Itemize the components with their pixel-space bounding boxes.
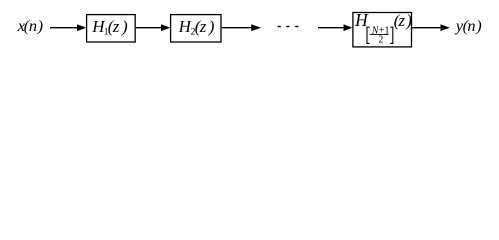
svg-text:): )	[208, 17, 215, 36]
svg-text:n: n	[467, 16, 475, 35]
block H1(z)	[87, 15, 136, 42]
svg-text:2: 2	[378, 35, 383, 46]
wire arrow ellipsis to box3	[318, 24, 352, 31]
node x(n) input label	[17, 16, 43, 35]
svg-text:z: z	[398, 11, 406, 30]
subscript numerator N+1	[371, 26, 390, 37]
ellipsis dots	[278, 26, 299, 28]
block H2(z)	[171, 15, 221, 42]
subscript denominator 2	[378, 35, 383, 46]
subscript fraction bar	[370, 33, 389, 35]
wire arrow box2 to ellipsis	[222, 24, 261, 31]
block H[(N+1)/2](z)	[353, 10, 412, 47]
wire output arrow	[412, 24, 450, 31]
svg-text:): )	[405, 11, 412, 30]
subscript bracket left [	[367, 27, 370, 43]
node y(n) output label	[454, 16, 482, 35]
svg-text:): )	[121, 17, 128, 36]
wire arrow box1 to box2	[136, 24, 170, 31]
subscript bracket right ]	[390, 27, 393, 43]
svg-text:z: z	[112, 17, 120, 36]
svg-text:): )	[475, 16, 481, 35]
svg-text:z: z	[199, 17, 207, 36]
wire input arrow	[50, 24, 86, 31]
svg-text:): )	[37, 16, 43, 35]
svg-text:n: n	[29, 16, 37, 35]
